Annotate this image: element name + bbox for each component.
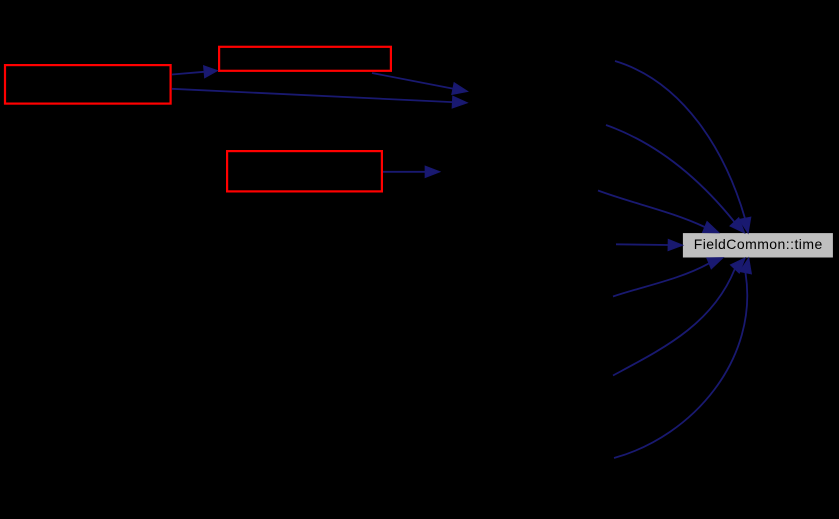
svg-text:FieldCommon::time: FieldCommon::time bbox=[694, 236, 823, 252]
